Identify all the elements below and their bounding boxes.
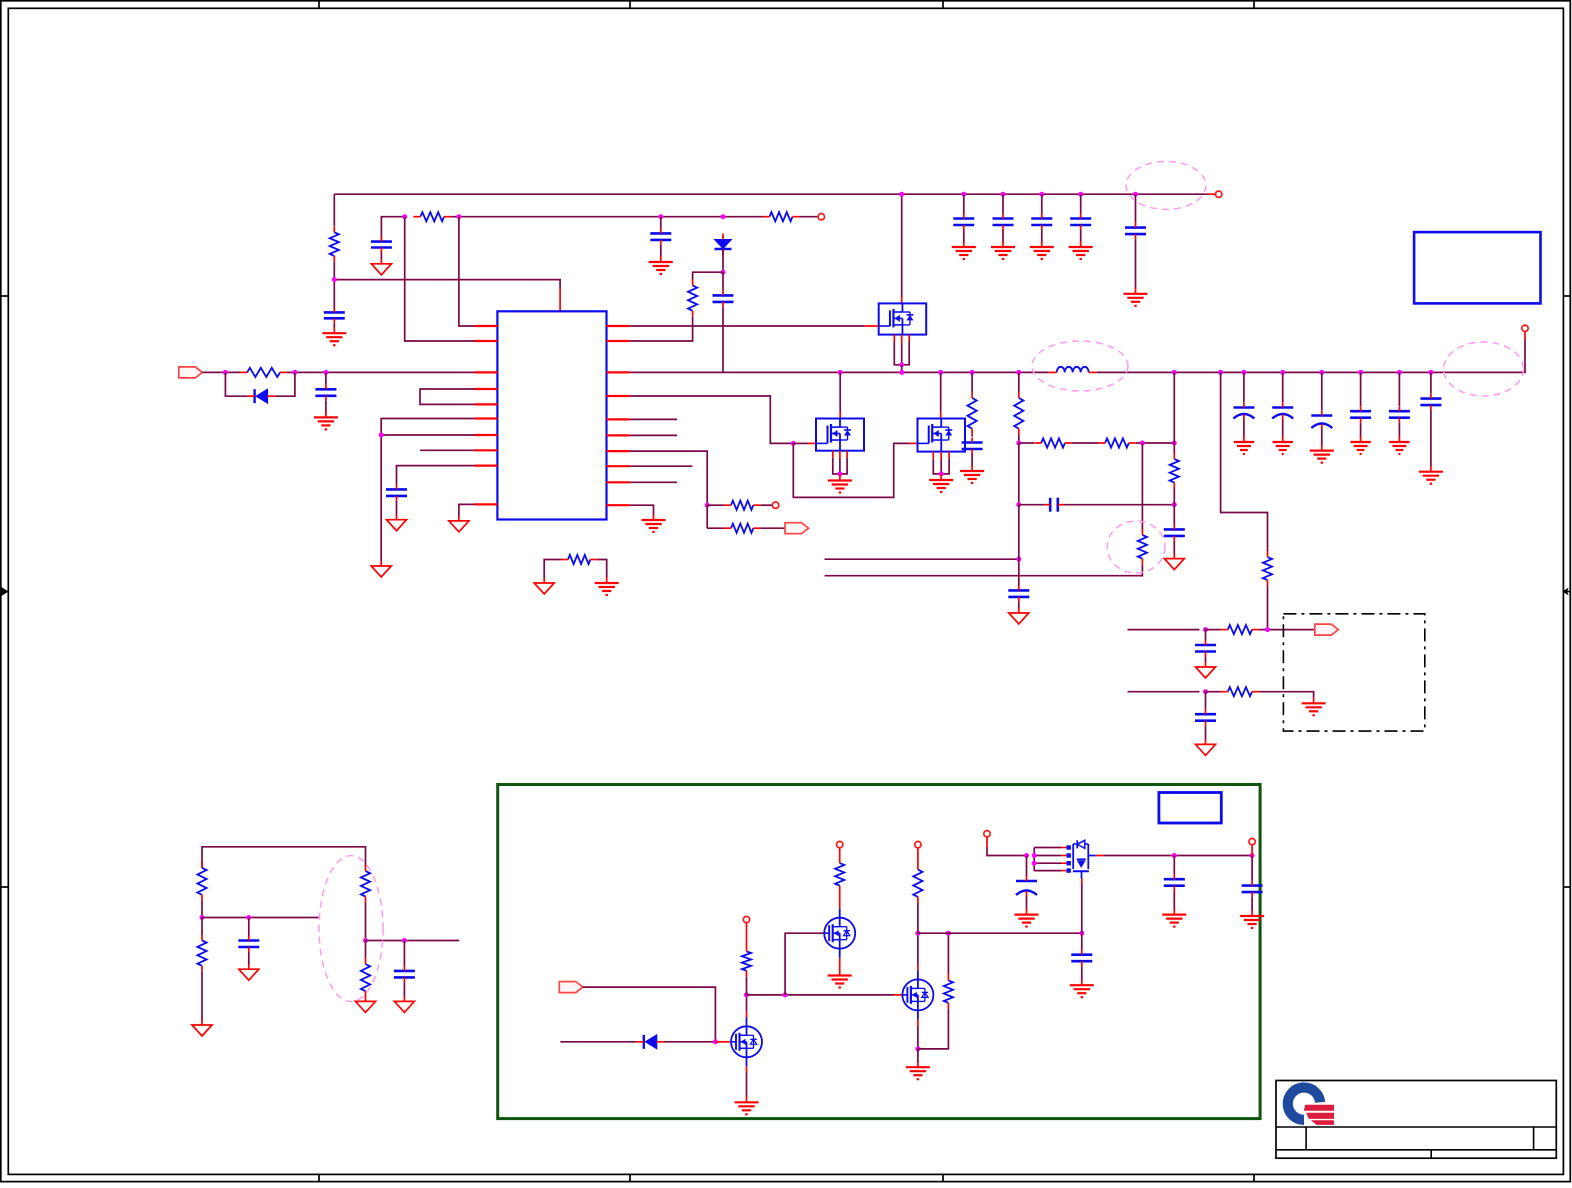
node junction row1 b xyxy=(1265,627,1270,632)
wire pin r9 stub xyxy=(630,481,677,483)
node junction C17 xyxy=(1133,192,1138,197)
ground Q2 earth xyxy=(828,970,852,988)
capacitor C12 xyxy=(1195,709,1216,726)
node junction BL3 xyxy=(363,938,368,943)
ground C27 earth xyxy=(1015,909,1039,927)
node junction boxB drain xyxy=(838,370,843,375)
wire R14 to row xyxy=(825,565,1143,576)
ground R19 triangle xyxy=(192,1020,212,1036)
wire Q4 out xyxy=(1088,855,1095,857)
node junction pin7 xyxy=(379,433,384,438)
wire Q4 in cap drop xyxy=(1026,856,1028,877)
ground C28 earth xyxy=(1162,909,1186,927)
wire Q4 source down xyxy=(1081,885,1083,934)
title block xyxy=(1276,1081,1556,1159)
transistor Q6 box xyxy=(816,419,864,451)
wire r7 to R7 xyxy=(707,504,724,506)
resistor R25 xyxy=(913,864,922,903)
capacitor C8 series xyxy=(1044,498,1064,512)
node junction 1221 bus xyxy=(1218,370,1223,375)
node junction r7 xyxy=(705,503,710,508)
ellipse note R14 xyxy=(1107,521,1165,573)
wire pin8 stub xyxy=(420,449,475,451)
node junction Q4 out1 xyxy=(1172,853,1177,858)
wire R5 to IC xyxy=(287,371,475,373)
resistor R18 xyxy=(197,862,206,901)
node junction boxC drain xyxy=(938,370,943,375)
resistor R21 xyxy=(361,958,370,997)
wire R24 top xyxy=(947,933,949,974)
transistor Q3 circle xyxy=(902,970,933,1019)
wire green row2 xyxy=(918,932,1082,934)
wire C5 to gnd xyxy=(396,501,398,515)
resistor R20 xyxy=(361,865,370,902)
wire to R8 xyxy=(707,527,724,529)
node junction boxB source xyxy=(837,471,842,476)
terminal circle top bus xyxy=(1216,191,1222,197)
wire gate route xyxy=(630,396,793,443)
wire drop to R1 xyxy=(333,194,335,226)
wire R1 to junction xyxy=(333,262,335,280)
capacitor bank C18-C23 xyxy=(1233,370,1443,484)
wire R18 to junction xyxy=(201,901,203,918)
wire pin7 join xyxy=(381,434,474,436)
resistor R15 xyxy=(1263,551,1272,586)
wire pin r7 xyxy=(630,451,707,505)
wire D1 to C4 xyxy=(722,272,724,290)
wire C4 to bus xyxy=(722,307,724,373)
diode D3 xyxy=(637,1035,664,1049)
ground R6 earth xyxy=(595,577,619,595)
node junction chain A xyxy=(1016,441,1021,446)
wire 1221 route xyxy=(1221,372,1268,551)
ground R21 triangle xyxy=(356,996,376,1012)
capacitor C10 xyxy=(1008,585,1029,602)
node junction R1-C1 xyxy=(332,277,337,282)
wire chainA down xyxy=(1018,443,1020,505)
wire boxA source legs xyxy=(894,335,909,365)
wire 559 to C10 xyxy=(1018,559,1020,585)
wire C2 drop xyxy=(381,217,404,241)
node junction Q1 gate xyxy=(713,1039,718,1044)
node junction BL1 xyxy=(200,915,205,920)
resistor R4 xyxy=(688,280,697,317)
node junction row1 a xyxy=(1203,627,1208,632)
node junction row2 a xyxy=(1203,689,1208,694)
logo company xyxy=(1288,1088,1334,1125)
resistor R8 xyxy=(724,524,760,533)
wire feedback row xyxy=(334,280,560,288)
wire D1 to junction xyxy=(722,249,724,272)
node junction Q3 top xyxy=(915,931,920,936)
ground pin67 triangle xyxy=(371,561,391,577)
wire D3 row xyxy=(560,1041,637,1043)
ground pin r10 earth xyxy=(642,514,666,532)
node junction Q4 out2 xyxy=(1250,853,1255,858)
wire row1 xyxy=(1128,629,1200,631)
ground C9 triangle xyxy=(1164,554,1184,570)
resistor R5 xyxy=(240,368,287,377)
node junction C3 xyxy=(658,214,663,219)
capacitor C24 xyxy=(238,936,259,953)
ground boxB earth xyxy=(828,475,852,493)
ground C11 triangle xyxy=(1196,662,1216,678)
wire R7 to terminal xyxy=(760,504,772,506)
capacitor C1 xyxy=(324,307,345,323)
node junction boxA source xyxy=(899,362,904,367)
wire C29 to gnd xyxy=(1251,897,1253,911)
wire C7 to gnd xyxy=(971,454,973,466)
wire C9 to gnd xyxy=(1173,541,1175,554)
resistor R11 xyxy=(1034,438,1072,447)
capacitor C28 xyxy=(1164,874,1185,891)
port EN arrow xyxy=(559,982,583,993)
wire Q1 to R22 xyxy=(746,977,748,995)
wire row2 capdrop xyxy=(1205,692,1207,710)
ellipse note L1 xyxy=(1032,341,1128,391)
wire R6 left leg xyxy=(544,560,561,579)
wire C24 to gnd xyxy=(248,952,250,965)
ground C25 triangle xyxy=(394,996,414,1012)
node junction 1174 bus xyxy=(1172,370,1177,375)
diode D1 xyxy=(715,234,732,256)
wire row1 b xyxy=(1206,629,1222,631)
node junction capline A xyxy=(1016,502,1021,507)
wire boxA source to bus xyxy=(901,365,903,373)
wire BL row2 xyxy=(366,940,460,942)
wire R13 top lead xyxy=(1173,443,1175,453)
wire C29 drop xyxy=(1251,856,1253,881)
IC U1 left pins xyxy=(475,326,498,504)
wire Q1 source down xyxy=(746,1066,748,1097)
wire R15 to row1 xyxy=(1267,586,1269,630)
ground C12 triangle xyxy=(1196,739,1216,755)
node junction in2 xyxy=(292,370,297,375)
wire boxB drain xyxy=(839,372,841,418)
wire IC top pin xyxy=(559,288,561,311)
wire junction to C1 xyxy=(333,280,335,308)
transistor Q7 box xyxy=(918,419,966,452)
wire C26 to gnd xyxy=(1081,966,1083,980)
ground Q3 earth xyxy=(906,1061,930,1079)
capacitor C25 xyxy=(394,966,415,983)
wire C11 to gnd xyxy=(1205,657,1207,663)
node junction capline B xyxy=(1172,502,1177,507)
wire R8 to port xyxy=(760,527,785,529)
wire row2 b xyxy=(1206,691,1222,693)
transistor Q2 circle xyxy=(824,909,855,958)
ground C26 earth xyxy=(1070,979,1094,997)
terminal circle Q4 in xyxy=(984,831,990,837)
box green subcircuit xyxy=(498,785,1260,1119)
wire Q4 out red xyxy=(1096,855,1104,857)
wire pin r6 stub xyxy=(630,434,677,436)
ground C17 earth xyxy=(1124,288,1148,306)
ground C10 triangle xyxy=(1009,608,1029,624)
wire bus to R9 xyxy=(971,372,973,392)
wire boxC source legs xyxy=(933,452,949,474)
node junction Q1 top xyxy=(744,992,749,997)
wire row 559 xyxy=(825,558,1019,560)
wire C28 drop xyxy=(1173,856,1175,875)
capacitor C26 xyxy=(1071,950,1092,967)
wire row2 c xyxy=(1259,692,1314,699)
node junction 559 xyxy=(1016,557,1021,562)
box label blue green xyxy=(1159,793,1221,824)
capacitor bank C13-C16 xyxy=(952,192,1093,259)
resistor R1 xyxy=(330,226,339,262)
wire R25 to term xyxy=(917,848,919,864)
terminal circle R7 xyxy=(772,502,778,508)
wire bus to R10 xyxy=(1018,372,1020,392)
wire boxB source legs xyxy=(833,451,847,474)
capacitor C9 xyxy=(1164,524,1185,541)
ground C1 earth xyxy=(322,327,346,345)
wire R22 to term xyxy=(746,923,748,945)
terminal circle R3 xyxy=(818,214,824,220)
port OUT1 arrow xyxy=(785,523,809,534)
wire C25 to gnd xyxy=(403,982,405,997)
IC U1 xyxy=(497,311,606,519)
node junction D1 low xyxy=(721,270,726,275)
wire C6 drop xyxy=(325,372,327,384)
wire Q2 drain up xyxy=(839,891,841,908)
wire Q1 drain up xyxy=(746,995,748,1018)
wire R6 right leg xyxy=(597,560,606,579)
wire Q4 out run xyxy=(1104,855,1252,857)
node junction Q3 source xyxy=(915,1046,920,1051)
resistor R2 xyxy=(413,212,451,221)
node junction in3 xyxy=(323,370,328,375)
wire row1 capdrop xyxy=(1205,630,1207,641)
wire C12 to gnd xyxy=(1205,726,1207,740)
wire gate branch xyxy=(793,443,917,497)
wire port EN route xyxy=(583,987,716,1042)
inductor L1 xyxy=(1049,367,1097,373)
wire R23 to term xyxy=(839,848,841,857)
wire R2 right run xyxy=(451,216,763,218)
wire Q4 in xyxy=(987,837,1027,856)
capacitor C4 xyxy=(713,290,734,307)
node junction Q4 in xyxy=(1024,853,1029,858)
wire boxC drain xyxy=(940,372,942,418)
transistor Q1 circle xyxy=(731,1017,762,1066)
wire diode loop right xyxy=(275,372,295,396)
terminal circle Q1 top xyxy=(743,916,749,922)
port OUT2 arrow xyxy=(1315,624,1339,635)
wire Q2 source down xyxy=(839,958,841,971)
wire R4 to pin row xyxy=(630,317,693,341)
wire 1174 drop xyxy=(1173,372,1175,443)
capacitor C3 xyxy=(650,228,671,245)
capacitor C7 xyxy=(962,438,983,455)
resistor R3 xyxy=(763,212,800,221)
wire diode loop left xyxy=(225,372,247,396)
wire boxA drain xyxy=(901,194,903,303)
ground R6 triangle xyxy=(534,578,554,594)
wire capline to C9 xyxy=(1173,505,1175,525)
wire R19 to gnd xyxy=(201,972,203,1021)
capacitor C2 xyxy=(371,237,392,253)
resistor R22 xyxy=(742,945,751,976)
resistor R13 xyxy=(1170,453,1179,489)
wire A down to pin xyxy=(405,217,475,341)
terminal circle bus end xyxy=(1522,325,1528,331)
node junction BL2 xyxy=(246,915,251,920)
terminal circle Q2 top xyxy=(837,841,843,847)
wire pins 6-7 to gnd xyxy=(381,419,474,562)
resistor R23 xyxy=(835,857,844,892)
capacitor C6 xyxy=(315,384,336,401)
resistor R6 xyxy=(561,555,597,564)
node junction A xyxy=(402,214,407,219)
resistor R12 xyxy=(1098,438,1136,447)
ground pin10 triangle xyxy=(449,516,469,532)
resistor R10 xyxy=(1014,392,1023,435)
resistor R14 xyxy=(1138,529,1147,565)
node junction boxC source xyxy=(939,471,944,476)
wire C26 drop xyxy=(1081,933,1083,950)
wire R24 link xyxy=(918,1009,949,1049)
wire C10 to gnd xyxy=(1018,602,1020,609)
wire R9 to C7 xyxy=(971,435,973,437)
wire top bus VCC xyxy=(334,193,1215,195)
ground boxC earth xyxy=(929,474,953,492)
wire Q3 drain up xyxy=(917,933,919,970)
wire pin r5 stub xyxy=(630,418,677,420)
ground C3 earth xyxy=(649,256,673,274)
wire C25 drop xyxy=(403,941,405,967)
terminal circle Q3 top xyxy=(915,841,921,847)
node junction R9 bus xyxy=(970,370,975,375)
wire chain seg2 xyxy=(1072,442,1098,444)
ground C2 triangle xyxy=(371,259,391,275)
wire Q4 pin bracket xyxy=(1032,845,1071,873)
wire C17 to gnd xyxy=(1135,239,1137,289)
node junction chain C xyxy=(1172,441,1177,446)
wire R21 top lead xyxy=(365,941,367,959)
ground C7 earth xyxy=(960,465,984,483)
wire row1 c xyxy=(1259,629,1315,631)
wire R3 to terminal xyxy=(800,216,819,218)
diode D2 xyxy=(248,389,275,403)
node junction Q2 branch xyxy=(783,992,788,997)
node junction D1 xyxy=(721,214,726,219)
resistor R19 xyxy=(197,935,206,972)
capacitor C5 xyxy=(386,484,407,501)
wire pin9 to C5 xyxy=(397,466,475,485)
ground C5 triangle xyxy=(387,515,407,531)
node junction boxA bus xyxy=(899,370,904,375)
wire R10 to chain xyxy=(1018,435,1020,443)
wire C24 drop xyxy=(248,918,250,936)
wire C1 to ground xyxy=(333,323,335,328)
wire C28 to gnd xyxy=(1173,891,1175,910)
capacitor C17 xyxy=(1125,223,1146,240)
ellipse note bus end xyxy=(1444,342,1524,396)
wire R20 to junction xyxy=(365,903,367,941)
wire pin10 to gnd xyxy=(459,504,475,516)
resistor R7 xyxy=(724,501,760,510)
capacitor C11 xyxy=(1195,640,1216,657)
wire boxA gate xyxy=(630,325,879,327)
ellipse note BL xyxy=(319,856,383,1002)
wire U-link pins 4-5 xyxy=(420,389,475,404)
wire D3 to junction xyxy=(664,1041,716,1043)
wire chain seg1 xyxy=(1019,442,1034,444)
wire capline right xyxy=(1064,504,1174,506)
resistor R16 xyxy=(1221,625,1259,634)
wire C3 to gnd xyxy=(660,245,662,257)
wire r7 down xyxy=(706,505,708,528)
transistor Q4 switch xyxy=(1073,840,1089,884)
wire gate Q1 xyxy=(715,1041,731,1043)
wire pin r10 to gnd xyxy=(630,505,654,515)
wire Q3 source down xyxy=(917,1019,919,1049)
wire port to R5 xyxy=(202,371,240,373)
node junction chain B xyxy=(1140,441,1145,446)
ground row2 earth xyxy=(1302,697,1326,715)
capacitor C29 xyxy=(1242,881,1263,898)
IC U1 right pins xyxy=(607,326,630,505)
wire pin r8 stub xyxy=(630,465,693,467)
node junction R10 bus xyxy=(1016,370,1021,375)
node junction R24 top xyxy=(946,931,951,936)
wire R21 to gnd xyxy=(365,996,367,998)
wire capline down xyxy=(1018,505,1020,560)
wire main bus left xyxy=(630,371,1049,373)
wire BL top xyxy=(202,847,366,868)
box dash-dot connector xyxy=(1283,614,1424,731)
box label blue TR xyxy=(1414,232,1540,303)
node junction boxA drain xyxy=(899,192,904,197)
wire 1142 drop xyxy=(1141,443,1143,530)
wire C17 drop xyxy=(1135,194,1137,223)
capacitor C27 xyxy=(1016,876,1037,896)
ellipse note top bus xyxy=(1126,161,1206,209)
resistor R24 xyxy=(944,974,953,1009)
wire R19 top lead xyxy=(201,918,203,935)
wire junction to R4 xyxy=(693,272,723,280)
terminal circle Q4 out xyxy=(1249,838,1255,844)
node junction Q4 low xyxy=(1079,931,1084,936)
resistor R9 xyxy=(968,392,977,435)
wire main bus right xyxy=(1097,332,1525,373)
ground C6 earth xyxy=(314,411,338,429)
wire capline left xyxy=(1019,504,1044,506)
wire Q3 top to term xyxy=(917,903,919,933)
port IN arrow xyxy=(179,367,203,378)
ground C29 earth xyxy=(1240,910,1264,928)
ground Q1 earth xyxy=(735,1096,759,1114)
wire green row xyxy=(747,994,903,996)
wire row2 xyxy=(1128,691,1200,693)
wire C3 drop xyxy=(660,217,662,229)
ground C24 triangle xyxy=(239,964,259,980)
wire C6 to gnd xyxy=(325,401,327,413)
wire Q2 branch xyxy=(785,933,824,995)
resistor R17 xyxy=(1221,687,1259,696)
wire BL row1 xyxy=(202,917,319,919)
node junction in1 xyxy=(223,370,228,375)
transistor Q5 box xyxy=(879,303,927,334)
node junction BL4 xyxy=(402,938,407,943)
wire gate to boxB xyxy=(793,442,816,444)
node junction gate xyxy=(791,441,796,446)
node junction B xyxy=(456,214,461,219)
wire Q3 gnd link xyxy=(917,1049,919,1062)
wire C27 to gnd xyxy=(1026,896,1028,910)
